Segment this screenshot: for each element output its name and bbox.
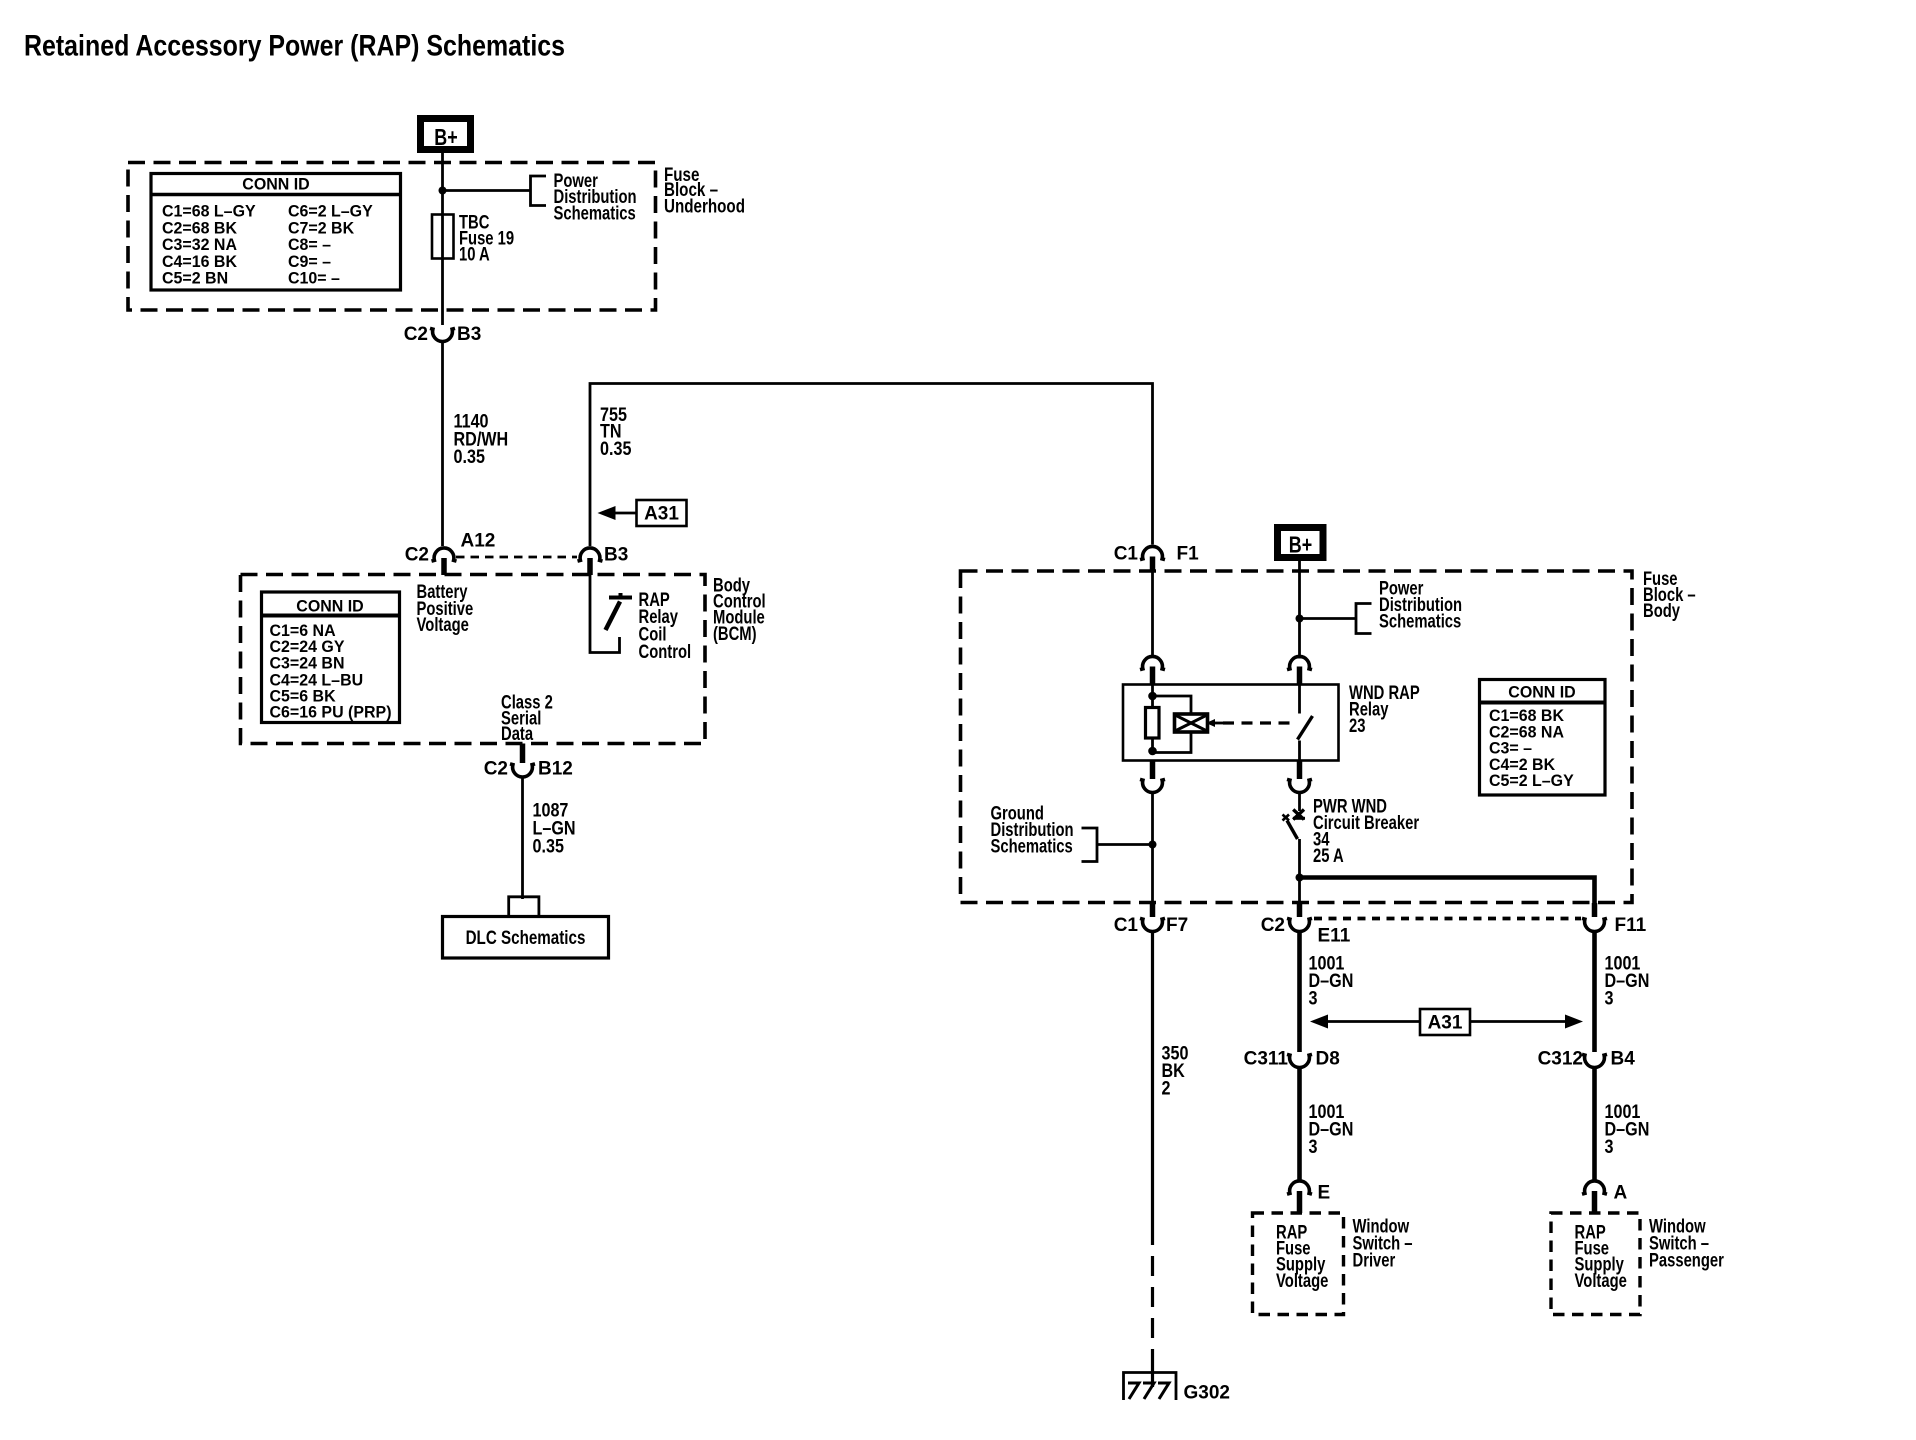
connector C1/F1 (into fuse block body) (1114, 544, 1199, 573)
DLC connector notch (509, 897, 539, 916)
svg-text:Schematics: Schematics (1379, 611, 1461, 632)
label power distribution schematics (body) (1379, 578, 1462, 632)
svg-text:23: 23 (1349, 715, 1365, 736)
svg-text:E: E (1318, 1183, 1331, 1204)
connector F11 (1582, 903, 1647, 936)
svg-text:A: A (1614, 1183, 1628, 1204)
svg-text:F7: F7 (1166, 915, 1188, 936)
svg-text:0.35: 0.35 (454, 446, 486, 468)
connector E (window switch driver) (1287, 1181, 1330, 1213)
relay coil-side bottom connector arc (1140, 761, 1165, 793)
svg-text:(BCM): (BCM) (713, 623, 757, 644)
RAP relay coil control switch symbol (606, 593, 633, 630)
bracket for power distribution schematics (body) (1356, 604, 1372, 634)
label wire 1001 D-GN 3 (driver) (1309, 1101, 1354, 1158)
svg-text:Underhood: Underhood (664, 195, 745, 217)
relay coil-side top connector arc (1140, 656, 1165, 684)
svg-text:B3: B3 (457, 324, 481, 345)
svg-text:3: 3 (1309, 1136, 1318, 1158)
label wire 1087 L-GN 0.35 (533, 799, 576, 857)
wire 755 TN from BCM B3 up and across to fuse block body C1/F1 (590, 384, 1153, 547)
svg-text:C6=16 PU (PRP): C6=16 PU (PRP) (270, 703, 392, 722)
svg-text:B12: B12 (538, 759, 573, 780)
label window switch driver (1353, 1216, 1413, 1271)
connector C2/E11 (1261, 903, 1351, 947)
svg-text:10 A: 10 A (459, 244, 490, 265)
svg-text:C5=2 BN: C5=2 BN (162, 269, 228, 288)
label ground distribution schematics (991, 803, 1074, 857)
fuse block body label (1643, 568, 1696, 621)
svg-text:Retained Accessory Power (RAP): Retained Accessory Power (RAP) Schematic… (24, 30, 565, 63)
relay actuator arrow (1206, 719, 1215, 727)
svg-text:C311: C311 (1244, 1049, 1289, 1070)
wire 1140 RD/WH from C2/B3 down to C2/A12 (441, 340, 444, 546)
B+ power symbol (left) (421, 119, 471, 151)
svg-text:3: 3 (1605, 1136, 1614, 1158)
svg-text:A31: A31 (644, 504, 679, 525)
svg-text:Schematics: Schematics (554, 203, 636, 224)
svg-text:Voltage: Voltage (1575, 1270, 1627, 1291)
wire 1001 D-GN from C311 down to E (1297, 1066, 1302, 1182)
label wire 1140 RD/WH 0.35 (454, 410, 509, 467)
svg-text:3: 3 (1309, 987, 1318, 1009)
relay coil junction top (1148, 692, 1157, 701)
svg-text:C7=2 BK: C7=2 BK (288, 219, 354, 238)
svg-text:C2: C2 (404, 324, 428, 345)
svg-text:Voltage: Voltage (417, 614, 469, 635)
junction breaker output (1296, 874, 1304, 882)
A31 reference arrow (to BCM wire) (598, 500, 687, 526)
fuse TBC Fuse 19 10 A (432, 212, 514, 265)
wire to ground distribution bracket (1097, 843, 1153, 846)
wire relay switch down to breaker (1298, 791, 1301, 811)
relay coil parallel loop wire (1153, 696, 1192, 753)
svg-text:25 A: 25 A (1313, 845, 1344, 866)
label power distribution schematics (underhood) (554, 170, 637, 223)
svg-text:C3=24 BN: C3=24 BN (270, 654, 345, 673)
wire 1087 L-GN down to DLC (521, 776, 524, 900)
CONN ID table (underhood) (151, 174, 401, 291)
label battery positive voltage (417, 581, 474, 635)
dotted connector body linkage E11-F11 (1314, 917, 1581, 921)
svg-text:Passenger: Passenger (1649, 1250, 1724, 1271)
CONN ID table (BCM) (262, 592, 400, 723)
fuse block underhood dashed box (128, 163, 656, 311)
svg-text:A31: A31 (1428, 1013, 1463, 1034)
svg-text:B3: B3 (604, 545, 628, 566)
svg-text:A12: A12 (461, 531, 496, 552)
A31 double-arrow reference (1310, 1009, 1583, 1035)
wire 1001 D-GN from C312 down to A (1592, 1066, 1597, 1182)
CONN ID table (fuse block body) (1480, 680, 1606, 796)
junction ground distribution tap (1149, 841, 1157, 849)
wire from B+ down through fuse to connector C2/B3 (441, 153, 444, 325)
RAP fuse supply voltage box (driver) (1253, 1213, 1344, 1315)
connector A (window switch passenger) (1582, 1181, 1628, 1213)
svg-text:0.35: 0.35 (600, 438, 632, 460)
label class 2 serial data (501, 692, 553, 744)
svg-text:C2: C2 (1261, 915, 1285, 936)
svg-text:C2=24 GY: C2=24 GY (270, 637, 345, 656)
svg-text:C10= –: C10= – (288, 269, 340, 288)
svg-text:B4: B4 (1611, 1049, 1636, 1070)
connector C2/B12 (BCM serial data out) (484, 744, 573, 780)
label PWR WND circuit breaker 34 25 A (1313, 796, 1419, 867)
relay coil element (1146, 708, 1160, 739)
junction node at body power distribution tap (1296, 615, 1304, 623)
connector B3 (into BCM) (578, 545, 629, 576)
svg-text:C1: C1 (1114, 915, 1139, 936)
svg-text:2: 2 (1162, 1077, 1171, 1099)
connector C312/B4 (1538, 1049, 1636, 1070)
wire from C1/F1 down to relay coil (1151, 572, 1154, 655)
svg-text:B+: B+ (434, 125, 457, 151)
bracket for ground distribution schematics (1082, 828, 1098, 862)
bracket for power distribution schematics (underhood) (531, 176, 547, 206)
svg-text:D8: D8 (1316, 1049, 1340, 1070)
svg-text:C1=68 L–GY: C1=68 L–GY (162, 202, 256, 221)
connector C311/D8 (1244, 1049, 1340, 1070)
relay coil branch wire (1151, 685, 1154, 753)
svg-text:CONN ID: CONN ID (1508, 683, 1576, 702)
PWR WND circuit breaker 34 25 A (1283, 810, 1306, 840)
relay switch contact (1298, 685, 1313, 761)
connector C2/A12 (into BCM) (405, 531, 496, 576)
svg-text:C6=2 L–GY: C6=2 L–GY (288, 202, 373, 221)
svg-text:C2=68 BK: C2=68 BK (162, 219, 237, 238)
RAP fuse supply voltage box (passenger) (1551, 1213, 1640, 1315)
svg-text:E11: E11 (1318, 926, 1351, 947)
wire relay coil side down to C1/F7 (1151, 791, 1154, 912)
svg-text:CONN ID: CONN ID (296, 597, 364, 616)
svg-text:Voltage: Voltage (1276, 1270, 1328, 1291)
svg-text:Data: Data (501, 723, 534, 744)
label RAP relay coil control (639, 589, 692, 662)
relay mechanical linkage dashed (1223, 721, 1290, 724)
WND RAP relay 23 box (1123, 685, 1339, 761)
svg-text:G302: G302 (1184, 1383, 1230, 1404)
junction node at power distribution tap (439, 187, 447, 195)
fuse block body dashed box (961, 571, 1633, 903)
svg-text:CONN ID: CONN ID (242, 175, 310, 194)
BCM label (713, 575, 766, 645)
relay actuator box with X (1175, 714, 1208, 732)
fuse block underhood label (664, 163, 745, 217)
svg-text:C5=2 L–GY: C5=2 L–GY (1489, 772, 1574, 791)
label wire 1001 D-GN 3 (F11 side) (1605, 952, 1650, 1009)
svg-text:C1: C1 (1114, 544, 1139, 565)
wire B+ down to relay switch (1298, 561, 1301, 659)
label wire 1001 D-GN 3 (passenger) (1605, 1101, 1650, 1158)
relay switch-side top connector arc (1287, 656, 1312, 684)
wire 350 BK 2 into ground (1151, 1360, 1154, 1387)
connector C2/B3 (fuse block underhood to wire) (404, 324, 482, 345)
svg-text:F11: F11 (1615, 915, 1647, 936)
svg-text:C312: C312 (1538, 1049, 1583, 1070)
wire 1001 D-GN from E11 down to C311 (1297, 931, 1302, 1053)
svg-text:Schematics: Schematics (991, 836, 1073, 857)
svg-text:3: 3 (1605, 987, 1614, 1009)
svg-text:0.35: 0.35 (533, 835, 565, 857)
label WND RAP relay 23 (1349, 682, 1420, 736)
BCM dashed box (241, 575, 706, 744)
svg-text:B+: B+ (1289, 532, 1312, 558)
wire B3 to RAP relay coil control driver (590, 575, 620, 653)
relay switch-side bottom connector arc (1287, 761, 1312, 793)
wire 1001 D-GN from F11 down to C312 (1592, 931, 1597, 1053)
label window switch passenger (1649, 1216, 1724, 1271)
wire tap to power distribution schematics (body) (1300, 617, 1357, 620)
label wire 1001 D-GN 3 (E11 side) (1309, 952, 1354, 1009)
wire breaker down to C2/E11 (1298, 839, 1301, 912)
relay coil junction bottom (1148, 747, 1157, 756)
wire 350 BK 2 down from C1/F7 (1151, 931, 1154, 1226)
svg-text:F1: F1 (1177, 544, 1200, 565)
label wire 350 BK 2 (1162, 1042, 1189, 1099)
wire 350 BK 2 dashed section (1151, 1225, 1154, 1360)
svg-text:C2: C2 (484, 759, 508, 780)
svg-text:Body: Body (1643, 600, 1680, 621)
DLC Schematics box (443, 917, 609, 959)
label wire 755 TN 0.35 (600, 404, 632, 460)
svg-text:DLC Schematics: DLC Schematics (466, 926, 586, 948)
wire tap to power distribution schematics (443, 189, 531, 192)
svg-text:Driver: Driver (1353, 1250, 1396, 1271)
svg-text:Control: Control (639, 641, 692, 662)
B+ power symbol (right) (1278, 528, 1324, 559)
svg-text:C2: C2 (405, 545, 429, 566)
dashed connector linkage A12-B3 (456, 556, 577, 559)
connector C1/F7 (1114, 903, 1188, 936)
ground G302 (1124, 1373, 1230, 1404)
wire breaker output across and down to F11 (1300, 878, 1595, 913)
